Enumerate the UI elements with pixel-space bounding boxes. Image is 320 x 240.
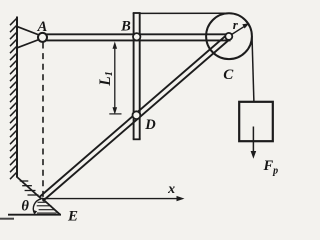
rope right vertical <box>252 36 254 102</box>
bar bottom cap <box>133 138 141 140</box>
beam AC bottom edge <box>43 39 231 41</box>
L1 bottom arrowhead <box>113 107 118 114</box>
incline from wall to E <box>17 177 42 199</box>
support hatching at E <box>37 202 57 213</box>
svg-text:E: E <box>67 208 78 224</box>
support triangle right side at E <box>42 198 61 215</box>
pin B <box>133 33 140 40</box>
radius arrowhead <box>242 23 249 28</box>
dashed line A to E <box>42 43 44 198</box>
strut EC upper edge <box>39 34 228 198</box>
scan mark bottom left <box>0 218 14 220</box>
svg-text:θ: θ <box>21 199 29 215</box>
incline hatching <box>20 181 39 195</box>
force Fp arrow line <box>252 127 254 153</box>
angle theta arrowhead <box>33 210 37 215</box>
wall hatching <box>10 18 17 179</box>
radius arrow line <box>231 26 245 35</box>
pin A <box>38 33 47 42</box>
x axis <box>42 198 179 200</box>
support base line at E <box>8 214 61 216</box>
L1 dimension line <box>114 44 116 113</box>
svg-text:A: A <box>37 19 48 35</box>
angle theta arc <box>33 199 41 213</box>
L1 top arrowhead <box>113 42 118 49</box>
L1 bottom tick <box>109 113 121 115</box>
pin D <box>133 111 141 119</box>
wall line <box>16 17 18 178</box>
x axis arrowhead <box>177 196 185 201</box>
pulley circle C <box>206 13 252 59</box>
bracket at A upper line <box>18 27 44 37</box>
weight box <box>239 102 273 141</box>
svg-text:C: C <box>223 67 234 83</box>
force Fp arrowhead <box>251 151 257 159</box>
svg-text:D: D <box>144 117 156 133</box>
bracket at A lower line <box>18 38 44 48</box>
vertical bar BD left edge <box>133 13 135 139</box>
svg-text:x: x <box>167 182 175 197</box>
vertical bar BD right edge <box>139 13 141 139</box>
svg-text:B: B <box>120 19 131 35</box>
beam AC top edge <box>43 33 231 35</box>
strut EC lower edge <box>43 38 232 202</box>
rope from bar top to pulley <box>141 12 230 14</box>
bar top cap <box>133 12 141 14</box>
pin C <box>225 33 232 40</box>
